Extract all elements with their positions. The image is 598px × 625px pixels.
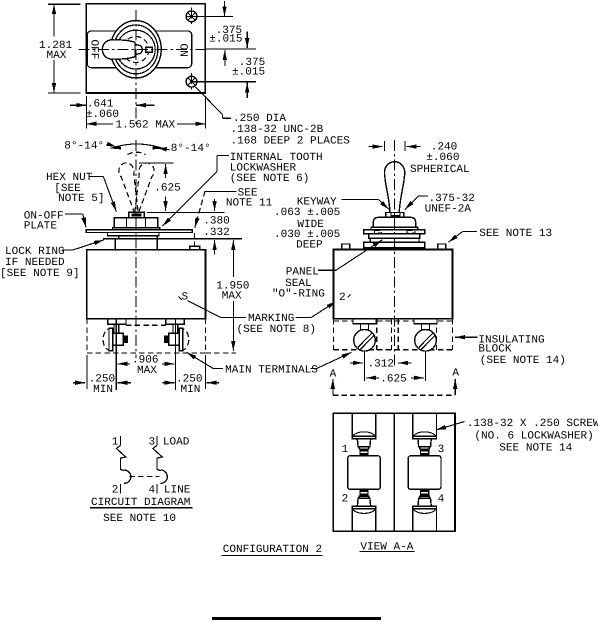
svg-text:DEEP: DEEP <box>296 240 323 252</box>
centerline horizontal (top view) <box>79 49 206 51</box>
hidden clearance outline (right view) <box>334 320 453 322</box>
label ON-OFF PLATE <box>24 210 86 232</box>
svg-text:MIN: MIN <box>93 384 113 396</box>
svg-text:"O"-RING: "O"-RING <box>272 289 325 301</box>
terminal centerline extensions <box>115 355 117 390</box>
svg-text:CONFIGURATION 2: CONFIGURATION 2 <box>223 544 322 556</box>
svg-text:BLOCK: BLOCK <box>478 344 512 356</box>
view A-A frame <box>333 413 455 531</box>
center line right view <box>394 140 396 368</box>
dim .375 lower <box>225 50 266 98</box>
svg-text:MAX: MAX <box>137 365 157 377</box>
internal tooth lockwasher (front) <box>113 228 160 230</box>
svg-text:MAIN TERMINALS: MAIN TERMINALS <box>225 364 318 376</box>
label MAIN TERMINALS <box>187 352 352 376</box>
svg-text:MIN: MIN <box>181 384 201 396</box>
svg-text:±.015: ±.015 <box>232 67 265 79</box>
bushing step <box>119 236 157 239</box>
label LOCK RING <box>0 240 104 280</box>
divider <box>393 413 395 531</box>
svg-text:PANEL: PANEL <box>286 266 319 278</box>
right lug <box>438 244 446 250</box>
pole 1 contact <box>116 445 125 470</box>
dome step <box>371 227 418 230</box>
svg-text:±.060: ±.060 <box>426 152 459 164</box>
svg-text:1.562 MAX: 1.562 MAX <box>116 120 176 132</box>
center line front view <box>135 140 137 358</box>
dim .625 <box>366 373 424 385</box>
terminal B (right view) <box>414 319 437 381</box>
swing arc dashed <box>128 152 146 154</box>
svg-text:SEE NOTE 14: SEE NOTE 14 <box>499 443 572 455</box>
extension lines below top view <box>85 96 87 129</box>
terminal 2 (front) <box>164 319 189 355</box>
dim 1.562 MAX <box>86 120 205 132</box>
label INSULATING BLOCK <box>455 334 566 367</box>
svg-text:.168 DEEP 2 PLACES: .168 DEEP 2 PLACES <box>231 135 351 147</box>
configuration title <box>222 544 323 556</box>
marking S symbol <box>179 292 221 318</box>
svg-text:UNEF-2A: UNEF-2A <box>425 203 472 215</box>
svg-text:NOTE 5]: NOTE 5] <box>58 193 104 205</box>
svg-text:SPHERICAL: SPHERICAL <box>410 164 470 176</box>
switch body (right view) <box>334 250 453 319</box>
svg-text:1: 1 <box>342 444 349 456</box>
swing arc solid with arrows <box>111 144 164 148</box>
svg-text:±.015: ±.015 <box>209 34 242 46</box>
svg-text:.250 DIA: .250 DIA <box>233 113 286 125</box>
screw2 reference line <box>192 81 257 83</box>
dim 1.950 MAX <box>216 240 249 351</box>
svg-text:.380: .380 <box>203 216 230 228</box>
toggle lever paddle (top view) <box>102 40 135 59</box>
svg-text:.063 ±.005: .063 ±.005 <box>274 207 340 219</box>
keyway collar <box>386 213 404 218</box>
dim .380/.332 <box>203 199 230 255</box>
reference line at bushing bottom <box>103 238 242 240</box>
svg-text:OFF: OFF <box>88 40 100 60</box>
reference line at lever base <box>147 211 224 213</box>
dim .906 MAX <box>117 355 174 378</box>
screw1 reference line <box>186 15 233 17</box>
panel seal dome <box>373 217 415 227</box>
screw 1 (top right) <box>186 8 197 26</box>
lever base block <box>129 212 144 217</box>
svg-text:LOAD: LOAD <box>163 437 190 449</box>
label KEYWAY <box>274 197 389 252</box>
left lug <box>342 244 350 250</box>
dim .625 lever height <box>139 163 181 211</box>
bushing ring 3 <box>116 30 155 69</box>
svg-text:.625: .625 <box>380 373 407 385</box>
section A-A cut marks <box>330 368 460 396</box>
label PANEL SEAL O-RING <box>272 240 382 301</box>
center reference line right <box>205 48 256 50</box>
leader .250 DIA from screw2 <box>196 87 351 147</box>
svg-text:PLATE: PLATE <box>24 221 58 233</box>
bushing base block <box>115 239 157 250</box>
arrow to arc right <box>157 148 170 150</box>
stack 1 (left) <box>348 413 381 531</box>
svg-text:3: 3 <box>438 444 445 456</box>
dim .250 MIN left <box>73 374 131 397</box>
bushing ring 2 <box>114 25 158 74</box>
svg-text:(SEE NOTE 6): (SEE NOTE 6) <box>230 173 310 185</box>
svg-text:[SEE NOTE 9]: [SEE NOTE 9] <box>0 268 80 280</box>
hex nut <box>114 218 157 228</box>
top view ON-OFF plate (rounded) <box>87 31 192 68</box>
dashed bat tilted left <box>117 161 144 214</box>
terminal A (right view) <box>353 319 376 381</box>
mechanical link dashed <box>130 476 160 478</box>
svg-text:ON: ON <box>177 44 189 57</box>
screw 2 (bottom right) <box>186 73 197 91</box>
svg-text:8°-14°: 8°-14° <box>64 141 104 153</box>
seal flange <box>364 230 425 234</box>
svg-text:(SEE NOTE 8): (SEE NOTE 8) <box>237 324 317 336</box>
switch body (front) <box>87 250 206 319</box>
stack 2 (right) <box>408 413 441 531</box>
label .138-32 screw <box>436 418 598 455</box>
svg-text:MAX: MAX <box>222 290 242 302</box>
dim .641 <box>70 99 154 122</box>
dim .312 <box>350 359 412 371</box>
body clearance dashed outline <box>86 319 88 353</box>
hidden line under body between terminals <box>126 324 166 326</box>
dim .375 upper <box>209 1 247 48</box>
label .375-32 UNEF-2A <box>405 193 475 215</box>
lock ring <box>108 233 160 236</box>
svg-text:A: A <box>330 368 337 380</box>
keyway hidden centerline <box>194 233 196 255</box>
svg-text:±.060: ±.060 <box>86 109 119 121</box>
svg-text:4: 4 <box>149 485 156 497</box>
dim .240 spherical <box>369 141 470 176</box>
toggle bat (right view) <box>385 162 405 213</box>
svg-text:A: A <box>452 368 459 380</box>
bushing layer <box>369 234 420 238</box>
svg-text:S: S <box>182 292 189 304</box>
dashed bat tilted right <box>129 161 156 214</box>
svg-text:LINE: LINE <box>164 484 191 496</box>
arrow to arc left <box>107 144 117 147</box>
label MARKING <box>220 301 336 336</box>
label SEE NOTE 13 <box>448 228 552 242</box>
svg-text:SEE NOTE 10: SEE NOTE 10 <box>103 513 176 525</box>
svg-text:(NO. 6 LOCKWASHER): (NO. 6 LOCKWASHER) <box>474 430 593 442</box>
svg-text:.138-32 UNC-2B: .138-32 UNC-2B <box>231 124 324 136</box>
marking 2 symbol <box>339 292 351 304</box>
svg-text:(SEE NOTE 14): (SEE NOTE 14) <box>480 355 566 367</box>
svg-text:8°-14°: 8°-14° <box>171 143 211 155</box>
svg-text:.312: .312 <box>368 359 395 371</box>
o-ring hidden marks <box>375 230 382 233</box>
dim .250 MIN right <box>162 374 218 397</box>
top view mounting body outline <box>86 4 205 93</box>
svg-text:SEE NOTE 13: SEE NOTE 13 <box>479 228 552 240</box>
marking pad bump <box>190 246 200 249</box>
svg-text:.332: .332 <box>203 227 230 239</box>
svg-text:.138-32 X .250 SCREW: .138-32 X .250 SCREW <box>467 418 598 430</box>
svg-text:2: 2 <box>339 292 346 304</box>
dim 1.281 MAX vertical line <box>39 4 81 93</box>
svg-text:2: 2 <box>342 493 349 505</box>
thread dashed circle <box>123 37 149 63</box>
svg-text:NOTE 11: NOTE 11 <box>226 198 273 210</box>
bushing boss outer <box>110 21 161 78</box>
svg-text:MAX: MAX <box>47 50 67 62</box>
pole 2 contact <box>153 445 162 470</box>
svg-text:4: 4 <box>438 493 445 505</box>
centerline vertical (top view) <box>135 10 137 127</box>
label HEX NUT <box>46 172 116 212</box>
ON-OFF plate (front) <box>86 230 192 233</box>
keyway square (top view) <box>146 47 153 52</box>
base flange <box>364 242 425 248</box>
svg-text:2: 2 <box>112 485 119 497</box>
bushing layer 2 <box>370 238 419 242</box>
svg-text:.625: .625 <box>154 182 181 194</box>
terminal 1 (front) <box>103 319 128 355</box>
bottom border segment <box>212 617 381 620</box>
